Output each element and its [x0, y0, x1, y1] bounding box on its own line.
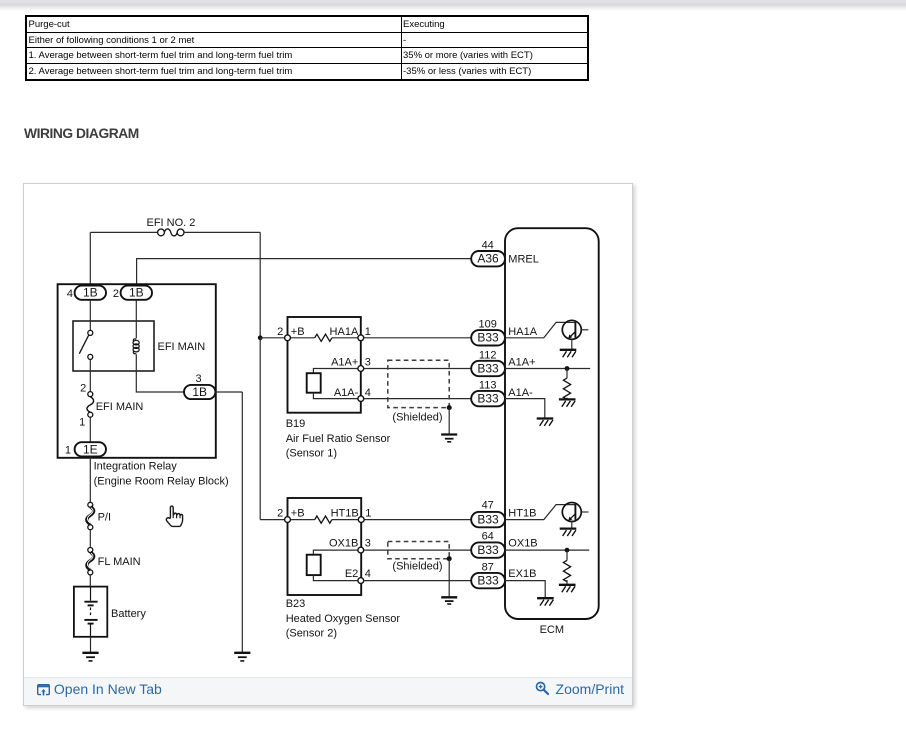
- wire: OX1B to ECM: [364, 549, 472, 551]
- svg-text:ECM: ECM: [540, 624, 564, 636]
- svg-text:109: 109: [479, 319, 497, 331]
- svg-text:1: 1: [365, 326, 371, 338]
- ground: EX1B pin: [505, 581, 545, 598]
- ECM pin 44 A36: [471, 240, 539, 267]
- shield box B19: [388, 360, 449, 407]
- svg-text:1: 1: [65, 444, 71, 456]
- B23 heated oxygen sensor box: [288, 498, 362, 595]
- svg-text:A1A+: A1A+: [508, 356, 535, 368]
- svg-text:EFI NO. 2: EFI NO. 2: [147, 217, 196, 229]
- ground: relay terminal 3 branch: [234, 653, 250, 661]
- svg-text:HT1B: HT1B: [331, 508, 359, 520]
- relay switch contacts: [89, 300, 91, 331]
- svg-text:FL MAIN: FL MAIN: [98, 556, 141, 568]
- node: +B junction: [258, 335, 263, 340]
- svg-text:A1A-: A1A-: [508, 387, 533, 399]
- diagram panel: [23, 183, 633, 706]
- svg-text:EFI MAIN: EFI MAIN: [96, 401, 144, 413]
- svg-text:B33: B33: [477, 574, 499, 588]
- svg-text:4: 4: [365, 387, 371, 399]
- shield box B23: [388, 542, 449, 559]
- svg-text:+B: +B: [291, 326, 305, 338]
- wire: relay 1E down: [89, 456, 91, 502]
- fusible link EFI MAIN (pins 2-1): [89, 359, 91, 391]
- svg-text:Heated Oxygen Sensor: Heated Oxygen Sensor: [286, 613, 401, 625]
- svg-text:B33: B33: [477, 331, 499, 345]
- wire: relay terminal 3 to right ground column: [215, 392, 242, 653]
- integration relay box: [58, 284, 216, 458]
- fusible link FL MAIN: [88, 548, 93, 575]
- fuse EFI NO. 2: [158, 229, 184, 236]
- ground: A1A+ resistor: [559, 399, 576, 406]
- svg-text:4: 4: [67, 288, 73, 300]
- svg-text:2: 2: [277, 326, 283, 338]
- wire: coil to relay terminal 3: [136, 354, 184, 392]
- svg-text:(Sensor 1): (Sensor 1): [286, 448, 337, 460]
- battery: [74, 587, 107, 637]
- svg-text:(Sensor 2): (Sensor 2): [286, 627, 337, 639]
- svg-text:A1A+: A1A+: [331, 356, 358, 368]
- svg-text:Integration Relay: Integration Relay: [94, 460, 178, 472]
- svg-text:1E: 1E: [83, 442, 98, 456]
- svg-text:P/I: P/I: [98, 511, 111, 523]
- svg-text:1B: 1B: [192, 385, 207, 399]
- wire: HA1A to ECM: [364, 337, 472, 339]
- wire: E2 to ECM: [364, 580, 472, 582]
- ECM pin 87 B33: [471, 561, 536, 588]
- svg-text:B33: B33: [477, 361, 499, 375]
- svg-text:64: 64: [482, 531, 494, 543]
- svg-text:Battery: Battery: [111, 608, 146, 620]
- wire: shield to ground: [448, 408, 450, 435]
- svg-text:3: 3: [365, 356, 371, 368]
- ECM pin 47 B33: [471, 500, 536, 528]
- wire: junction to B19 +B: [260, 337, 284, 339]
- ECM box: [505, 228, 599, 619]
- svg-text:47: 47: [482, 500, 494, 512]
- B19 sensing element: [313, 369, 358, 374]
- ECM pin 64 B33: [471, 531, 537, 558]
- relay terminal 1 oval 1E: [89, 417, 91, 442]
- ECM pin 113 B33: [471, 380, 533, 407]
- svg-text:1: 1: [79, 416, 85, 428]
- spec table: [25, 15, 589, 81]
- svg-text:2: 2: [277, 508, 283, 520]
- wire: A1A- to ECM: [364, 398, 472, 400]
- svg-text:112: 112: [479, 349, 497, 361]
- top gray gradient bar: [0, 0, 906, 11]
- svg-text:HA1A: HA1A: [330, 326, 359, 338]
- svg-text:3: 3: [365, 538, 371, 550]
- wire: MREL line to ECM pin A36: [137, 259, 472, 286]
- svg-text:B23: B23: [286, 598, 306, 610]
- wire: HT1B to ECM: [364, 519, 471, 521]
- wire: shield to ground: [448, 559, 450, 597]
- ground: OX1B resistor: [559, 585, 576, 592]
- svg-text:EFI MAIN: EFI MAIN: [158, 341, 206, 353]
- transistor HA1A driver: [505, 322, 575, 337]
- svg-text:B33: B33: [477, 513, 499, 527]
- svg-text:1: 1: [365, 508, 371, 520]
- svg-text:2: 2: [80, 382, 86, 394]
- relay terminal 4 oval 1B: [67, 286, 106, 300]
- B19 terminal 1: [358, 335, 364, 341]
- ground: B23 shield: [441, 597, 457, 604]
- B19 heater wire +B to pin 1 with resistor: [290, 337, 358, 339]
- svg-text:E2: E2: [345, 568, 358, 580]
- B23 heater wire +B to pin 1 with resistor: [290, 519, 358, 521]
- svg-text:HA1A: HA1A: [508, 326, 537, 338]
- wire: [89, 575, 91, 587]
- mouse cursor: [166, 506, 182, 526]
- open-in-new-tab icon: [37, 684, 50, 696]
- svg-text:44: 44: [482, 240, 494, 252]
- svg-text:113: 113: [479, 380, 497, 392]
- resistor: A1A+ pulldown: [505, 368, 590, 370]
- B19 air fuel ratio sensor box: [288, 317, 361, 413]
- relay terminal 2 oval 1B: [113, 286, 152, 300]
- wire: junction down to B23 +B: [260, 338, 284, 520]
- svg-text:OX1B: OX1B: [329, 538, 358, 550]
- transistor HT1B driver: [505, 505, 575, 520]
- panel footer bar: [24, 677, 632, 705]
- resistor: OX1B pulldown: [505, 549, 589, 551]
- svg-text:(Engine Room Relay Block): (Engine Room Relay Block): [94, 475, 229, 487]
- svg-text:4: 4: [365, 568, 371, 580]
- ground: A1A- pin: [505, 399, 545, 419]
- zoom/print magnifier icon: [535, 681, 550, 696]
- node: shield drain B19: [447, 405, 452, 410]
- node: shield drain B23: [447, 556, 452, 561]
- relay coil EFI MAIN: [135, 300, 137, 338]
- svg-text:MREL: MREL: [508, 254, 539, 266]
- ground: battery: [90, 637, 92, 653]
- svg-text:3: 3: [195, 373, 201, 385]
- svg-text:1B: 1B: [83, 286, 98, 300]
- B23 terminal 1: [358, 517, 364, 523]
- svg-text:1B: 1B: [129, 286, 144, 300]
- svg-text:87: 87: [482, 561, 494, 573]
- relay inner box: [73, 321, 154, 371]
- svg-text:(Shielded): (Shielded): [392, 560, 442, 572]
- wire: battery feed to fuse EFI NO. 2: [90, 232, 157, 285]
- B23 sensing element: [313, 550, 358, 555]
- svg-text:B33: B33: [477, 392, 499, 406]
- svg-text:(Shielded): (Shielded): [392, 412, 442, 424]
- wire: fuse to junction column: [184, 232, 260, 337]
- wire: A1A+ to ECM: [364, 368, 472, 370]
- svg-text:OX1B: OX1B: [508, 538, 537, 550]
- svg-text:EX1B: EX1B: [508, 568, 536, 580]
- heading: [24, 126, 139, 141]
- svg-text:HT1B: HT1B: [508, 508, 536, 520]
- B19 terminal 2: [285, 335, 291, 341]
- svg-text:A36: A36: [477, 252, 499, 266]
- svg-text:A1A-: A1A-: [334, 387, 359, 399]
- ECM pin 112 B33: [471, 349, 535, 376]
- ground: HT1B driver: [560, 529, 577, 536]
- ground: B19 shield: [441, 435, 457, 442]
- fusible link P/I: [88, 502, 93, 529]
- ECM pin 109 B33: [471, 319, 537, 346]
- ground: HA1A driver: [560, 350, 577, 357]
- B23 terminal 2: [285, 517, 291, 523]
- svg-text:B19: B19: [286, 418, 306, 430]
- relay terminal 3 oval 1B: [184, 373, 215, 399]
- svg-text:B33: B33: [477, 543, 499, 557]
- svg-text:Air Fuel Ratio Sensor: Air Fuel Ratio Sensor: [286, 433, 391, 445]
- wire: [89, 530, 91, 548]
- svg-text:2: 2: [113, 288, 119, 300]
- svg-text:+B: +B: [291, 508, 305, 520]
